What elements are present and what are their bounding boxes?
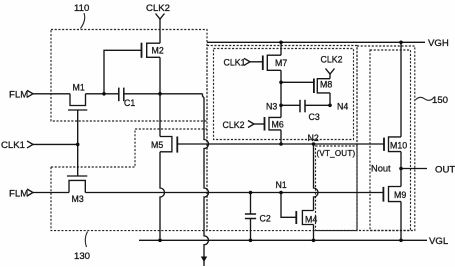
svg-text:CLK2: CLK2 <box>223 120 245 130</box>
svg-text:VGH: VGH <box>428 38 449 49</box>
svg-text:M8: M8 <box>320 80 332 90</box>
svg-text:N2: N2 <box>308 133 319 143</box>
svg-text:M9: M9 <box>394 190 406 200</box>
svg-text:(VT_OUT): (VT_OUT) <box>317 149 356 158</box>
svg-text:130: 130 <box>74 251 90 262</box>
svg-text:CLK1: CLK1 <box>1 140 25 151</box>
svg-text:Nout: Nout <box>371 164 391 174</box>
svg-text:FLM: FLM <box>9 189 28 200</box>
svg-text:M2: M2 <box>152 46 164 56</box>
svg-text:N3: N3 <box>266 102 277 112</box>
svg-text:FLM: FLM <box>9 90 28 101</box>
svg-text:CLK1: CLK1 <box>224 58 246 68</box>
svg-text:M10: M10 <box>390 141 407 151</box>
svg-text:C3: C3 <box>309 112 320 122</box>
svg-text:M5: M5 <box>151 140 163 150</box>
svg-text:C1: C1 <box>124 98 135 108</box>
svg-text:OUT: OUT <box>435 165 455 176</box>
svg-text:C2: C2 <box>260 214 271 224</box>
svg-text:VGL: VGL <box>429 236 449 247</box>
svg-text:CLK2: CLK2 <box>321 55 343 65</box>
svg-text:N1: N1 <box>276 180 287 190</box>
svg-text:M7: M7 <box>275 58 287 68</box>
svg-text:CLK2: CLK2 <box>146 3 170 14</box>
svg-text:110: 110 <box>74 3 89 14</box>
svg-text:N4: N4 <box>337 102 348 112</box>
svg-text:150: 150 <box>432 95 448 106</box>
svg-text:M1: M1 <box>73 83 85 93</box>
svg-text:M4: M4 <box>305 215 317 225</box>
svg-text:M6: M6 <box>272 120 284 130</box>
svg-text:M3: M3 <box>72 194 84 204</box>
